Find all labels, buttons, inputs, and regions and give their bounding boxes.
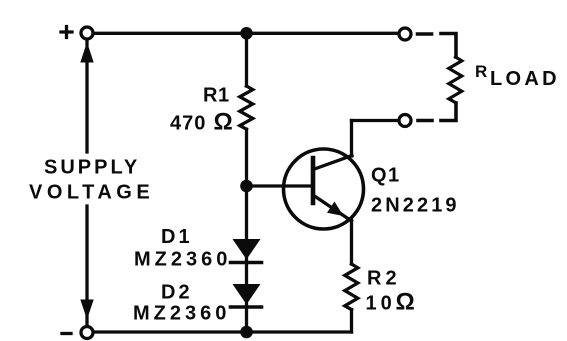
svg-text:Ω: Ω — [214, 109, 233, 136]
dash top row — [418, 32, 432, 36]
resistor RLOAD — [449, 57, 462, 103]
diode D1 — [231, 239, 262, 263]
resistor R2 — [345, 264, 358, 310]
svg-text:470: 470 — [170, 113, 206, 135]
svg-text:R1: R1 — [203, 85, 230, 107]
svg-text:VOLTAGE: VOLTAGE — [29, 182, 154, 204]
wire bottom rail — [94, 330, 352, 333]
wire emitter down — [350, 220, 353, 264]
terminal circle T2 (-) — [81, 327, 93, 339]
minus symbol — [62, 332, 71, 335]
resistor R1 — [240, 86, 253, 129]
wire R1 upper lead — [245, 39, 248, 86]
transistor Q1 — [284, 149, 364, 229]
svg-text:2N2219: 2N2219 — [371, 195, 460, 217]
dash corner top to Rload — [441, 34, 456, 58]
dash corner bottom to Rload — [441, 103, 456, 121]
svg-text:MZ2360: MZ2360 — [134, 249, 231, 271]
dash bottom row — [418, 119, 432, 123]
svg-text:LOAD: LOAD — [490, 68, 560, 90]
wire base — [252, 184, 310, 187]
svg-text:Ω: Ω — [396, 289, 415, 316]
wire R2 lower lead — [350, 310, 353, 332]
terminal circle T4 (top out) — [399, 28, 411, 40]
wire top rail — [94, 32, 398, 35]
terminal circle T1 (+) — [81, 27, 93, 39]
supply arrow down — [80, 206, 93, 325]
wire D2 to bottom rail — [245, 304, 248, 332]
plus symbol — [61, 27, 72, 38]
wire R1 lower lead — [245, 129, 248, 180]
svg-text:10: 10 — [366, 293, 396, 315]
wire collector horizontal — [352, 119, 399, 122]
wire collector up — [350, 121, 353, 157]
supply arrow up — [80, 40, 93, 152]
diode D2 — [231, 284, 262, 307]
wire D1 to D2 — [245, 259, 248, 284]
svg-text:MZ2360: MZ2360 — [133, 303, 230, 325]
svg-text:Q1: Q1 — [371, 165, 401, 187]
svg-text:R: R — [475, 62, 487, 81]
svg-text:D1: D1 — [161, 226, 193, 248]
terminal circle T3 (collector out) — [399, 115, 411, 127]
node junction top — [240, 27, 253, 40]
node junction bottom — [240, 326, 253, 339]
svg-text:R2: R2 — [367, 268, 401, 290]
wire node to D1 — [245, 192, 248, 239]
svg-text:SUPPLY: SUPPLY — [44, 157, 140, 179]
node base junction — [240, 180, 253, 193]
svg-text:D2: D2 — [161, 282, 193, 304]
